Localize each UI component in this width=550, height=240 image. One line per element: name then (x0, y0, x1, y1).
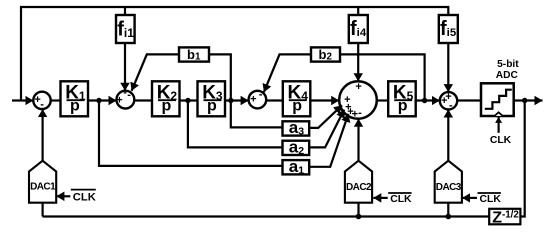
junction node after K3 (228, 98, 233, 103)
junction node at ADC output (522, 98, 527, 103)
wire drop from K3 node to a3 (231, 101, 283, 128)
wire S3 to K4 (266, 99, 283, 101)
wire bottom feedback bus from Z-1/2 to DAC1 (43, 215, 490, 217)
CLK input DAC1 (56, 195, 70, 197)
wire K3 to S3 (225, 99, 249, 101)
coefficient block b2 (311, 47, 340, 63)
wire drop from K2 node to a2 (188, 101, 283, 148)
wire a2 to S4 (diagonal) (309, 110, 344, 148)
wire b1 input tap from K3 output node (209, 54, 231, 100)
wire fi5 to S5 (447, 43, 449, 92)
svg-text:p: p (207, 98, 217, 115)
wire S2 to K2 (134, 99, 152, 101)
wire S1 to K1 (51, 99, 61, 101)
wire DAC2 to S4 (357, 119, 359, 161)
DAC3 (435, 161, 462, 203)
summing junction S4 (large) (339, 81, 377, 121)
clock notch caret on ADC bottom edge (494, 112, 502, 116)
coefficient block b1 (179, 47, 209, 63)
integrator K4 (283, 81, 311, 116)
wire ADC output with arrow (514, 99, 543, 101)
wire output node down to Z-1/2 delay (520, 101, 524, 217)
svg-text:+: + (116, 95, 122, 107)
svg-text:p: p (292, 98, 302, 115)
svg-text:p: p (398, 98, 408, 115)
wire a1 to S4 (diagonal) (309, 114, 348, 167)
CLK input DAC2 (373, 197, 387, 199)
svg-text:-: - (40, 99, 44, 111)
svg-text:ADC: ADC (496, 70, 519, 81)
summing junction S1 (33, 92, 50, 111)
junction node DAC3 on bus (446, 214, 452, 220)
wire top feed-forward line from input node (21, 7, 448, 101)
wire drop from K1 node to a1 (99, 101, 283, 166)
coefficient block a2 (283, 138, 310, 158)
svg-text:+: + (250, 93, 256, 105)
wire DAC3 to S5 (447, 110, 449, 161)
svg-text:DAC3: DAC3 (436, 182, 462, 193)
coefficient block a1 (283, 157, 310, 177)
wire DAC1 bottom stub to bus (41, 203, 43, 217)
svg-text:DAC2: DAC2 (346, 182, 372, 193)
ADC block (5-bit quantizer) (481, 83, 514, 116)
svg-text:+: + (441, 95, 447, 107)
wire b1 output to S2 (diagonal) (132, 54, 179, 90)
wire K4 to S4 (310, 99, 339, 101)
summing junction S5 (440, 91, 457, 112)
wire K5 to S5 (416, 99, 440, 101)
svg-text:p: p (162, 98, 172, 115)
junction node DAC2 on bus (356, 214, 362, 220)
integrator K3 (198, 81, 226, 116)
wire top line into fi1 (124, 7, 126, 15)
svg-text:+: + (355, 81, 361, 93)
wire DAC1 to S1 (41, 109, 43, 161)
wire top line into fi4 (357, 7, 359, 15)
feed-in block fi1 (116, 15, 135, 43)
coefficient block a3 (283, 118, 310, 138)
svg-text:-: - (449, 100, 453, 112)
CLK input DAC3 (462, 197, 477, 199)
integrator K1 (61, 81, 89, 116)
wire K1 to S2 (88, 99, 117, 101)
junction node after K1 (96, 98, 101, 103)
DAC2 (345, 161, 372, 203)
svg-text:CLK: CLK (390, 194, 412, 205)
wire b2 output to S3 (diagonal) (264, 54, 311, 92)
wire S4 to K5 (377, 99, 388, 101)
wire DAC2 bottom stub to bus (357, 203, 359, 217)
wire fi4 to S4 (357, 43, 359, 81)
CLK arrow into ADC (498, 117, 500, 133)
wire a3 to S4 (diagonal) (309, 105, 342, 128)
wire fi1 to S2 (124, 43, 126, 91)
feed-in block fi5 (439, 15, 458, 43)
DAC1 (29, 161, 56, 203)
wire input line into S1 (12, 99, 33, 101)
svg-text:+: + (352, 109, 358, 121)
svg-text:p: p (70, 98, 80, 115)
integrator K2 (152, 81, 180, 116)
svg-text:-: - (127, 89, 131, 101)
summing junction S2 (116, 87, 134, 109)
feed-in block fi4 (349, 15, 368, 43)
svg-text:DAC1: DAC1 (30, 182, 56, 193)
wire b2 input tap from K5 output node (340, 54, 425, 100)
svg-text:CLK: CLK (480, 194, 502, 205)
delay block Z^-1/2 (489, 209, 520, 227)
wire S5 to ADC (457, 99, 481, 101)
svg-text:5-bit: 5-bit (497, 59, 519, 70)
svg-text:CLK: CLK (73, 192, 96, 204)
summing junction S3 (249, 88, 267, 108)
wire DAC3 bottom stub to bus (447, 203, 449, 217)
quantizer staircase (485, 90, 512, 109)
junction node after K2 (185, 98, 190, 103)
wire K2 to K3 (180, 99, 198, 101)
junction node after K5 (422, 98, 427, 103)
integrator K5 (388, 81, 416, 116)
svg-text:-: - (259, 88, 263, 100)
svg-text:-: - (358, 107, 362, 119)
svg-text:CLK: CLK (490, 135, 512, 146)
